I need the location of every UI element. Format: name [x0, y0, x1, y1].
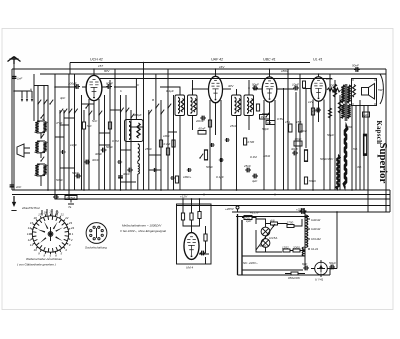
svg-text:0502/2W: 0502/2W	[288, 276, 301, 280]
svg-text:0.1µF: 0.1µF	[166, 89, 174, 93]
svg-text:50pF: 50pF	[252, 83, 259, 87]
svg-text:10: 10	[34, 248, 38, 252]
wire U4 top	[318, 74, 320, 77]
wire bus E	[232, 211, 390, 213]
capacitor C-k blob	[75, 174, 81, 179]
trimmer arrow t2	[43, 100, 47, 105]
wire a6 link	[266, 224, 288, 227]
svg-text:60nF: 60nF	[199, 127, 206, 131]
capacitor T2 right	[250, 99, 253, 113]
capacitor left bottom 2nF	[10, 183, 15, 189]
capacitor mid 25nF	[245, 168, 251, 173]
svg-text:50nF: 50nF	[352, 64, 359, 68]
wire U3 pins	[264, 100, 275, 190]
svg-text:10nF: 10nF	[292, 83, 299, 87]
svg-text:2Fach51'8mz: 2Fach51'8mz	[21, 206, 40, 210]
capacitor U3 couple	[252, 86, 258, 91]
svg-text:20: 20	[54, 210, 59, 214]
wire top bus 2	[12, 68, 386, 70]
wire U2 grid	[193, 88, 209, 90]
wire antenna down	[13, 64, 15, 190]
svg-text:( von Glättseilseite gesehen ): ( von Glättseilseite gesehen )	[17, 263, 56, 267]
svg-text:2nF: 2nF	[15, 185, 21, 189]
svg-text:4*10: 4*10	[56, 121, 63, 125]
svg-text:180V: 180V	[281, 69, 289, 73]
capacitor top right 50nF	[354, 67, 360, 72]
wire right verticals	[330, 74, 368, 212]
capacitor C 30nF	[84, 160, 90, 165]
svg-text:5nF: 5nF	[92, 119, 97, 123]
diode load R	[256, 104, 259, 111]
resistor R 20k vert	[108, 122, 111, 129]
resistor mid 60nF box	[198, 127, 206, 135]
wire ground bus	[12, 189, 390, 191]
resistor eye 1	[181, 213, 184, 220]
switch stub b	[26, 91, 28, 102]
resistor A6	[271, 222, 278, 225]
switch arrow C	[40, 157, 44, 162]
svg-text:1µF: 1µF	[246, 219, 251, 223]
wire short h6	[60, 167, 75, 169]
wire eye mid	[183, 219, 200, 233]
svg-text:12: 12	[28, 238, 32, 242]
wire eye right	[199, 226, 209, 264]
svg-text:1M: 1M	[261, 115, 266, 119]
svg-text:B: B	[152, 98, 154, 102]
capacitor trim C	[43, 165, 46, 176]
wire short h2	[55, 136, 64, 138]
rotary switch numbers b	[27, 210, 75, 236]
wire lamp leads	[256, 219, 282, 252]
svg-text:1750: 1750	[287, 221, 294, 225]
svg-text:25nF: 25nF	[144, 147, 152, 151]
resistor right margin	[363, 135, 366, 155]
svg-text:22: 22	[64, 216, 69, 220]
coil group B	[35, 141, 38, 153]
svg-text:UAF42: UAF42	[311, 227, 321, 231]
capacitor osc tune	[137, 123, 140, 138]
lamp L2	[261, 239, 270, 248]
svg-text:~6.3V: ~6.3V	[258, 244, 267, 248]
svg-text:0.25M: 0.25M	[67, 196, 76, 200]
svg-text:3%: 3%	[357, 165, 362, 169]
svg-text:U/15A: U/15A	[269, 236, 277, 240]
wire U3 top	[269, 69, 271, 77]
capacitor eye	[200, 251, 206, 256]
wire heater taps	[305, 212, 310, 249]
IF transformer T2 box right	[244, 95, 254, 116]
switch arrow U1c	[85, 104, 89, 109]
capacitor sc2	[117, 160, 122, 164]
resistor R grid UL	[303, 81, 306, 88]
svg-text:Kapsch: Kapsch	[375, 121, 382, 145]
switch row mid2	[63, 109, 67, 114]
svg-text:10kΩ: 10kΩ	[263, 154, 271, 158]
switch stub c	[31, 91, 33, 102]
svg-text:UBC 41: UBC 41	[263, 58, 276, 62]
wire coil top bar	[34, 85, 48, 87]
resistor eye right	[204, 234, 207, 241]
oscillator coil box	[125, 120, 144, 142]
wire mid verticals osc	[115, 63, 174, 191]
wire short h10	[64, 117, 75, 119]
wire eye feeds	[183, 199, 200, 213]
resistor 2000	[293, 249, 300, 252]
wire top bus 1	[70, 62, 310, 64]
resistor dropper tall	[344, 124, 347, 189]
svg-text:4pF: 4pF	[60, 96, 65, 100]
svg-text:50nF: 50nF	[206, 165, 213, 169]
svg-text:30µF: 30µF	[291, 147, 298, 151]
capacitor low c4	[187, 168, 192, 172]
coil T2 right	[247, 98, 249, 114]
resistor R vert mid2	[172, 140, 175, 147]
svg-text:50nF: 50nF	[56, 178, 63, 182]
wire U1 grid left	[55, 86, 87, 88]
rotary switch hub	[49, 232, 53, 236]
svg-text:30nF: 30nF	[295, 137, 302, 141]
wire top bus 4	[100, 78, 332, 80]
wire 1750 link	[294, 219, 302, 226]
wire U4 pins	[313, 100, 324, 191]
wire short h7	[168, 131, 177, 133]
svg-text:0.1M: 0.1M	[250, 155, 257, 159]
speaker frame	[352, 79, 377, 106]
wire mains left	[238, 214, 243, 275]
coil group A	[35, 121, 38, 133]
svg-text:0.5M: 0.5M	[248, 140, 255, 144]
wire antenna tap	[14, 90, 32, 92]
resistor eye 2	[190, 213, 193, 220]
svg-text:0.5M: 0.5M	[277, 117, 284, 121]
transformer T-out windings	[341, 84, 350, 121]
svg-text:16: 16	[34, 216, 38, 220]
svg-text:13: 13	[27, 232, 31, 236]
svg-text:7k0: 7k0	[87, 124, 92, 128]
wire bus D	[176, 205, 390, 207]
switch row mid3	[68, 109, 72, 114]
svg-text:+215V: +215V	[250, 211, 260, 215]
tube U5 UM4	[184, 233, 199, 260]
svg-text:15B: 15B	[296, 120, 301, 124]
wire osc taps	[137, 161, 139, 190]
svg-text:20mF: 20mF	[195, 119, 204, 123]
wire coilC frame	[37, 164, 45, 186]
resistor R vert mid	[159, 140, 162, 147]
capacitor U2 cath	[200, 116, 206, 121]
resistor 0502	[291, 272, 298, 275]
capacitor C vol 0.1	[53, 195, 59, 200]
svg-text:7000: 7000	[345, 125, 352, 129]
svg-text:8µF: 8µF	[302, 262, 307, 266]
rotary switch numbers a	[28, 232, 74, 258]
resistor speaker field	[353, 85, 356, 98]
wire UL grid	[303, 88, 311, 90]
capacitor C osc g	[101, 148, 107, 153]
switch arrow U1a	[88, 111, 92, 116]
wire short h1	[60, 124, 69, 126]
wire short h13	[121, 181, 137, 183]
svg-text:30nF: 30nF	[95, 152, 102, 156]
resistor pair b2	[296, 120, 302, 132]
svg-text:30nF: 30nF	[123, 172, 130, 176]
IF transformer T1 box right	[188, 95, 198, 116]
fuse box	[244, 216, 252, 220]
svg-text:UL 41: UL 41	[313, 58, 323, 62]
svg-text:UL41: UL41	[311, 247, 319, 251]
tube U3 UBC41	[262, 77, 277, 102]
svg-text:A/6: A/6	[269, 219, 275, 223]
lamp L1	[261, 227, 270, 236]
wire left edge vertical	[11, 69, 13, 190]
speaker cone	[369, 84, 375, 100]
tube U2 UAF42	[208, 76, 222, 102]
capacitor padder	[127, 168, 133, 173]
capacitor mid 30uF	[292, 151, 298, 156]
wire U3 anode	[277, 88, 294, 90]
svg-text:11: 11	[30, 243, 33, 247]
svg-text:30nF: 30nF	[92, 158, 99, 162]
coil osc series 2	[138, 164, 140, 174]
switch row osc1	[120, 108, 124, 113]
socket pins	[90, 226, 104, 240]
svg-text:Superior: Superior	[377, 143, 389, 184]
svg-text:12pF: 12pF	[70, 143, 77, 147]
coil group C	[35, 164, 38, 176]
resistor dropper tall 2	[336, 155, 339, 190]
coil L1 ferrite	[17, 144, 30, 157]
junction dots top	[13, 62, 319, 92]
wire T1 bottom leads	[180, 116, 193, 191]
wire short h4	[121, 149, 132, 151]
rotary switch ticks	[30, 214, 71, 255]
switch arrow mid	[199, 154, 203, 159]
svg-text:50µF: 50µF	[329, 261, 336, 265]
wire U2 anode right	[222, 88, 231, 90]
wire U3 grid	[253, 88, 262, 90]
capacitor mid 30nF box	[294, 137, 302, 146]
svg-text:Meßschaltrahmen ~ 1000Ω/V: Meßschaltrahmen ~ 1000Ω/V	[122, 224, 162, 228]
svg-text:17: 17	[38, 213, 42, 217]
resistor 700	[304, 177, 316, 184]
resistor tone h	[327, 88, 341, 92]
wire short h11	[131, 126, 144, 128]
svg-text:1MΩ: 1MΩ	[163, 134, 170, 138]
svg-text:2: 2	[70, 238, 73, 242]
switch arrow A	[40, 114, 44, 119]
capacitor T2 left	[238, 99, 241, 113]
resistor U2 cath	[208, 120, 211, 127]
rotary switch plate	[32, 216, 68, 252]
antenna	[8, 57, 21, 65]
svg-text:1352: 1352	[282, 246, 289, 250]
svg-text:4µF: 4µF	[252, 179, 257, 183]
switch row osc5	[155, 104, 159, 109]
wire bus B	[12, 194, 390, 196]
wire chain bottom	[290, 251, 305, 271]
wire fuse link	[242, 218, 256, 225]
switch row osc2	[125, 108, 129, 113]
svg-text:2000: 2000	[292, 246, 300, 250]
wire U2 pins	[210, 100, 221, 190]
wire U1 anode right	[102, 86, 137, 88]
resistor mid 05M box	[244, 138, 255, 145]
wire short h3	[99, 132, 110, 134]
capacitor mid 4uF	[252, 174, 258, 179]
resistor R box h1	[260, 115, 270, 120]
speaker voice coil	[362, 88, 369, 96]
resistor U4 cath	[311, 108, 314, 115]
svg-text:UAF42: UAF42	[311, 218, 321, 222]
svg-text:7a: 7a	[68, 205, 72, 209]
rotary switch wedge arrows	[37, 222, 63, 244]
wire bus C	[55, 198, 390, 200]
capacitor T1 right	[194, 99, 197, 113]
wire bus1 left drop	[69, 63, 71, 75]
resistor mid v1	[204, 150, 207, 160]
svg-text:+12V: +12V	[180, 195, 188, 199]
svg-text:24: 24	[70, 226, 75, 230]
coil T1 left	[178, 98, 180, 114]
IF transformer T1 box left	[175, 95, 185, 116]
rectifier UY41	[315, 260, 328, 277]
coil T2 left	[235, 98, 237, 114]
svg-text:15: 15	[30, 221, 34, 225]
wire short h8	[82, 103, 95, 105]
potentiometer vol	[262, 113, 270, 118]
wire psu bottom	[238, 212, 338, 275]
switch row mid4	[74, 109, 78, 114]
rotary switch inner ticks	[33, 216, 68, 251]
capacitor mid m3	[225, 138, 230, 142]
magic eye box	[177, 204, 212, 264]
svg-text:UM 4: UM 4	[186, 266, 193, 270]
ground arrow left	[11, 196, 16, 211]
svg-text:UCH 42: UCH 42	[90, 58, 103, 62]
svg-text:80pF: 80pF	[106, 82, 113, 86]
svg-text:21: 21	[60, 213, 65, 217]
svg-text:50µF/35V: 50µF/35V	[320, 157, 334, 161]
capacitor T1 left	[181, 99, 184, 113]
resistor right margin small	[362, 112, 370, 117]
svg-text:0.1M: 0.1M	[112, 139, 119, 143]
wire U1 top	[93, 69, 95, 75]
svg-text:1nF: 1nF	[17, 77, 22, 81]
svg-text:157: 157	[98, 64, 103, 68]
capacitor 50uF top	[299, 208, 306, 214]
capacitor sc3	[153, 168, 158, 172]
trimmer arrow t3	[49, 100, 53, 105]
wire right edge verticals	[386, 69, 390, 212]
wire left verticals group2	[55, 74, 75, 199]
svg-text:0.5: 0.5	[267, 121, 272, 125]
svg-text:19: 19	[49, 210, 53, 214]
capacitor 8uF	[303, 266, 309, 271]
wire mid-right verticals	[284, 69, 307, 190]
resistor R box h2	[266, 121, 275, 126]
svg-text:25nF: 25nF	[311, 109, 319, 113]
switch row mid1	[59, 109, 63, 114]
wire left verticals group1	[34, 74, 48, 190]
wire psu top	[236, 216, 309, 218]
wire rosc down	[83, 129, 85, 190]
tube U1 UCH42	[86, 75, 102, 100]
svg-text:151: 151	[285, 120, 290, 124]
switch row osc4	[148, 110, 152, 115]
resistor low v3	[175, 176, 178, 183]
svg-text:180V: 180V	[326, 77, 334, 81]
capacitor sc4	[170, 176, 175, 180]
capacitor C couple UL	[293, 86, 299, 91]
resistor R-osc MOD	[82, 122, 85, 129]
wire U2 top	[215, 69, 217, 76]
svg-text:Sockelschaltung: Sockelschaltung	[85, 246, 107, 250]
svg-text:700Ω: 700Ω	[309, 179, 317, 183]
switch arrow B	[40, 134, 44, 139]
trimmer arrow t1	[37, 100, 41, 105]
svg-text:UCH42: UCH42	[311, 237, 321, 241]
coil osc series 1	[138, 144, 140, 161]
svg-text:20nF: 20nF	[299, 129, 307, 133]
capacitor C-g1 100pF	[74, 84, 80, 89]
rotary switch stubs up	[42, 209, 57, 216]
svg-text:2µF: 2µF	[362, 113, 368, 117]
capacitor 50uF right	[329, 265, 335, 270]
capacitor C-ant 1nF	[12, 75, 17, 81]
wire top bus 3	[40, 73, 386, 75]
svg-text:1MΩ+: 1MΩ+	[183, 175, 191, 179]
capacitor mid m2	[219, 158, 224, 162]
resistor mid v2	[304, 150, 307, 161]
svg-text:NC..220V~: NC..220V~	[243, 261, 258, 265]
wire short h9	[110, 109, 121, 111]
coil T1 right	[191, 98, 193, 114]
resistor tone 3	[328, 108, 331, 118]
svg-text:0.1M: 0.1M	[164, 142, 171, 146]
resistor eye 3	[198, 212, 201, 219]
capacitor U4 cath	[315, 108, 321, 113]
switch row osc3	[130, 114, 134, 119]
switch row osc7	[167, 104, 171, 109]
wire T1 top leads	[160, 80, 193, 95]
capacitor mid m1	[210, 143, 215, 147]
coil osc primary	[129, 122, 131, 140]
wire coilA frame	[37, 121, 45, 138]
resistor pair b1	[285, 120, 292, 132]
capacitor trim A	[43, 122, 46, 133]
svg-text:50pF: 50pF	[106, 145, 113, 149]
svg-text:460pF: 460pF	[133, 113, 142, 117]
capacitor C 30nF2	[118, 174, 123, 180]
svg-text:50nF: 50nF	[72, 171, 79, 175]
potentiometer arrow vol	[68, 200, 74, 210]
wire short h14	[149, 169, 161, 171]
resistor 1352	[283, 249, 290, 252]
svg-text:+205V: +205V	[225, 207, 235, 211]
svg-text:V bei 220V~, ohne Eingangssign: V bei 220V~, ohne Eingangssignal	[120, 229, 166, 233]
wire psu mid h	[242, 255, 305, 257]
switch stub a	[21, 91, 23, 102]
svg-text:U Y41: U Y41	[315, 278, 324, 282]
svg-text:50pF: 50pF	[262, 127, 269, 131]
plug prongs	[235, 206, 241, 212]
switch row osc6	[160, 110, 164, 115]
heater winding	[302, 214, 307, 256]
svg-text:5%: 5%	[353, 147, 358, 151]
svg-text:23: 23	[68, 221, 73, 225]
resistor R vol box	[65, 196, 77, 200]
wire U1 stage verticals	[82, 80, 111, 190]
